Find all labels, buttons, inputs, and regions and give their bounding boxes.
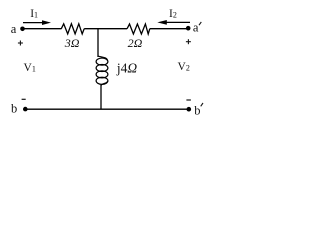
svg-text:I1: I1 <box>30 8 38 20</box>
svg-text:I2: I2 <box>169 8 177 20</box>
resistor R2 2Ω <box>127 24 150 34</box>
label 3Ω (value of R1) <box>64 36 80 50</box>
svg-text:3Ω: 3Ω <box>64 36 80 50</box>
svg-text:a: a <box>11 22 17 36</box>
polarity + port 1 <box>18 41 23 46</box>
current arrow I1 <box>23 20 51 25</box>
svg-text:V2: V2 <box>178 61 190 73</box>
terminal b (node dot) <box>23 107 28 112</box>
label V1 <box>24 62 36 74</box>
svg-text:b: b <box>194 104 200 118</box>
svg-text:b: b <box>11 102 17 116</box>
wire bottom rail <box>25 108 189 110</box>
label b' <box>194 103 203 118</box>
wire top lead of inductor (junction at top rail) <box>97 29 99 57</box>
wire top rail left segment <box>23 28 62 30</box>
terminal a' (node dot) <box>186 26 191 31</box>
polarity + port 2 <box>186 39 191 44</box>
resistor R1 3Ω <box>61 24 84 34</box>
terminal b' (node dot) <box>187 107 192 112</box>
label a <box>11 22 17 36</box>
svg-text:V1: V1 <box>24 62 36 74</box>
svg-text:2Ω: 2Ω <box>128 36 143 50</box>
label I2 <box>169 8 177 20</box>
label j4Ω (value of L) <box>116 61 138 76</box>
wire top rail right segment <box>150 28 188 30</box>
label b <box>11 102 17 116</box>
svg-text:j4Ω: j4Ω <box>116 61 138 76</box>
label a' <box>193 21 201 35</box>
label 2Ω (value of R2) <box>128 36 143 50</box>
wire top rail middle segment <box>84 28 127 30</box>
inductor L j4Ω <box>96 56 108 86</box>
current arrow I2 <box>157 20 190 25</box>
polarity - port 2 <box>186 99 191 101</box>
label V2 <box>178 61 190 73</box>
terminal a (node dot) <box>20 27 25 32</box>
polarity - port 1 <box>22 98 26 100</box>
svg-text:a: a <box>193 21 199 35</box>
label I1 <box>30 8 38 20</box>
wire bottom lead of inductor <box>100 85 102 109</box>
